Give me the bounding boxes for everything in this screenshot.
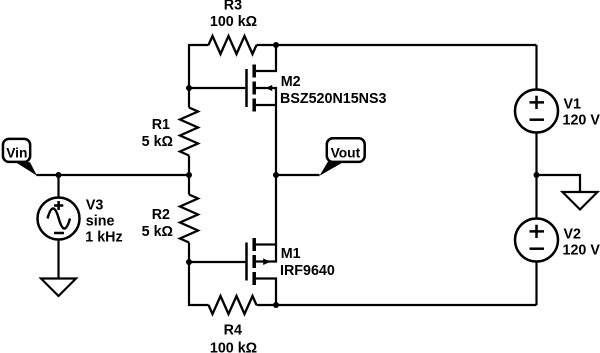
svg-text:sine: sine (86, 213, 115, 229)
junction dot at Vout node (273, 172, 279, 178)
wire left rail between R1 and R2 (188, 156, 190, 195)
voltage source V3 (38, 198, 80, 240)
wire V3 to ground (57, 240, 59, 279)
junction dot at V3 tap (56, 172, 62, 178)
transistor M2 gate lead wire (189, 87, 245, 89)
svg-text:100 kΩ: 100 kΩ (210, 14, 257, 30)
svg-text:Vin: Vin (6, 145, 27, 160)
wire right rail top (535, 45, 537, 90)
junction dot at middle rail / left rail (186, 172, 192, 178)
svg-text:100 kΩ: 100 kΩ (210, 340, 257, 353)
wire Vout stub (276, 174, 320, 176)
svg-text:M2: M2 (281, 74, 301, 90)
svg-text:R4: R4 (224, 323, 242, 339)
voltage source V1 (515, 90, 558, 133)
ground (left) (41, 279, 76, 297)
wire bottom rail right (257, 304, 537, 306)
wire top rail right (257, 44, 537, 46)
svg-text:V2: V2 (564, 226, 582, 242)
net flag Vin (3, 139, 37, 176)
svg-text:M1: M1 (281, 246, 301, 262)
resistor R1 (180, 108, 198, 156)
transistor M1 gate lead wire (189, 261, 245, 263)
ground (right) (563, 192, 598, 210)
resistor R4 (209, 296, 257, 314)
svg-text:V3: V3 (86, 197, 104, 213)
svg-text:120 V: 120 V (563, 243, 600, 259)
svg-text:5 kΩ: 5 kΩ (142, 134, 173, 150)
wire right rail bottom (535, 262, 537, 306)
svg-text:V1: V1 (564, 96, 582, 112)
transistor M2 (247, 45, 277, 175)
svg-text:Vout: Vout (331, 145, 361, 160)
svg-text:BSZ520N15NS3: BSZ520N15NS3 (280, 91, 387, 107)
junction dot at V1/V2 midpoint (534, 172, 540, 178)
voltage source V2 (515, 219, 558, 262)
wire V3 branch top (57, 175, 59, 198)
junction dot at M1 gate / R2 bottom (186, 259, 192, 265)
junction dot at R4 right / M1 source (273, 302, 279, 308)
wire top rail left lead (189, 45, 209, 108)
svg-text:120 V: 120 V (563, 113, 600, 129)
svg-text:5 kΩ: 5 kΩ (142, 224, 173, 240)
svg-text:IRF9640: IRF9640 (280, 263, 335, 279)
net flag Vout (320, 138, 365, 176)
junction dot at R3 right / M2 drain (273, 42, 279, 48)
resistor R3 (209, 36, 257, 54)
resistor R2 (180, 195, 198, 243)
junction dot at M2 gate / R1 top (186, 85, 192, 91)
svg-text:R2: R2 (152, 207, 170, 223)
wire to ground (right) (537, 175, 581, 192)
svg-text:R1: R1 (152, 117, 170, 133)
wire left rail bottom (189, 243, 209, 306)
wire middle rail (Vin) (37, 174, 190, 176)
transistor M1 (247, 175, 277, 305)
svg-text:1 kHz: 1 kHz (85, 229, 122, 245)
wire right rail middle (535, 133, 537, 219)
svg-text:R3: R3 (224, 0, 242, 13)
